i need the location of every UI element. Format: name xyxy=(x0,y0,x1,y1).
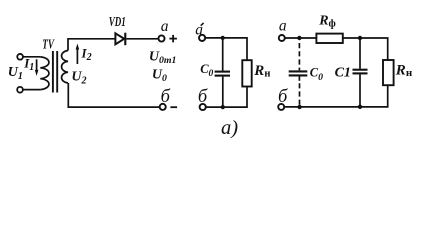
svg-text:C1: C1 xyxy=(335,66,351,81)
node bottom of C0 dashed xyxy=(297,105,301,109)
svg-text:TV: TV xyxy=(42,37,55,52)
node top of C1 xyxy=(358,36,362,40)
plus sign xyxy=(169,38,177,40)
svg-text:б: б xyxy=(161,87,171,107)
node bottom of C0 xyxy=(221,105,225,109)
wire xyxy=(23,56,40,58)
svg-text:U2: U2 xyxy=(71,69,86,86)
svg-text:C0: C0 xyxy=(310,65,323,83)
svg-text:Rн: Rн xyxy=(253,63,270,79)
wire top rail right xyxy=(285,37,316,39)
current arrow I2 xyxy=(76,49,78,65)
capacitor C0 right plates xyxy=(289,70,308,72)
node bottom of C1 xyxy=(358,105,362,109)
terminal input top xyxy=(17,54,23,60)
wire diode to terminal a xyxy=(126,38,158,40)
svg-text:б: б xyxy=(278,87,288,107)
svg-text:U0m1: U0m1 xyxy=(149,49,177,66)
svg-text:Rн: Rн xyxy=(395,63,413,79)
middle block: terminal a' xyxy=(199,35,205,41)
resistor Rn middle xyxy=(242,60,251,86)
transformer core xyxy=(52,51,54,93)
wire bottom rail right xyxy=(285,85,388,107)
wire secondary bottom lead + bottom rail to terminal b xyxy=(68,83,159,107)
minus sign xyxy=(170,106,177,108)
svg-text:б: б xyxy=(198,87,208,107)
dashed C0 branch xyxy=(298,43,300,70)
svg-text:а: а xyxy=(279,18,287,35)
wire secondary top lead xyxy=(68,39,116,51)
terminal b middle xyxy=(200,104,206,110)
wire xyxy=(23,89,40,91)
svg-text:а: а xyxy=(161,18,169,35)
capacitor C0 branch wire xyxy=(222,38,224,71)
node top of C0 dashed xyxy=(297,36,301,40)
capacitor C1 plates xyxy=(353,69,368,71)
terminal input bottom xyxy=(17,87,23,93)
svg-text:C0: C0 xyxy=(200,62,213,79)
svg-text:U0: U0 xyxy=(152,67,167,84)
resistor Rn right xyxy=(383,60,394,85)
current arrow I1 xyxy=(36,59,38,71)
transformer TV primary winding xyxy=(40,57,49,90)
right block: terminal a xyxy=(279,35,285,41)
terminal b right xyxy=(278,104,284,110)
transformer TV secondary winding xyxy=(62,51,68,84)
wire top rail middle xyxy=(205,38,247,60)
accent of a' xyxy=(201,23,204,26)
resistor Rf xyxy=(316,34,342,43)
wire Rf to corner xyxy=(343,38,388,60)
capacitor C1 branch xyxy=(359,38,361,69)
svg-text:U1: U1 xyxy=(8,65,23,82)
node top of C0 xyxy=(221,36,225,40)
svg-text:I1: I1 xyxy=(23,56,34,74)
svg-text:I2: I2 xyxy=(81,46,92,64)
svg-text:Rф: Rф xyxy=(318,13,336,29)
svg-text:VD1: VD1 xyxy=(109,15,126,30)
wire bottom middle xyxy=(206,87,247,108)
svg-text:а): а) xyxy=(221,117,238,139)
terminal a rectifier xyxy=(158,35,164,41)
capacitor C0 plates xyxy=(215,71,230,73)
terminal b rectifier xyxy=(160,104,166,110)
diode VD1 xyxy=(115,33,124,44)
